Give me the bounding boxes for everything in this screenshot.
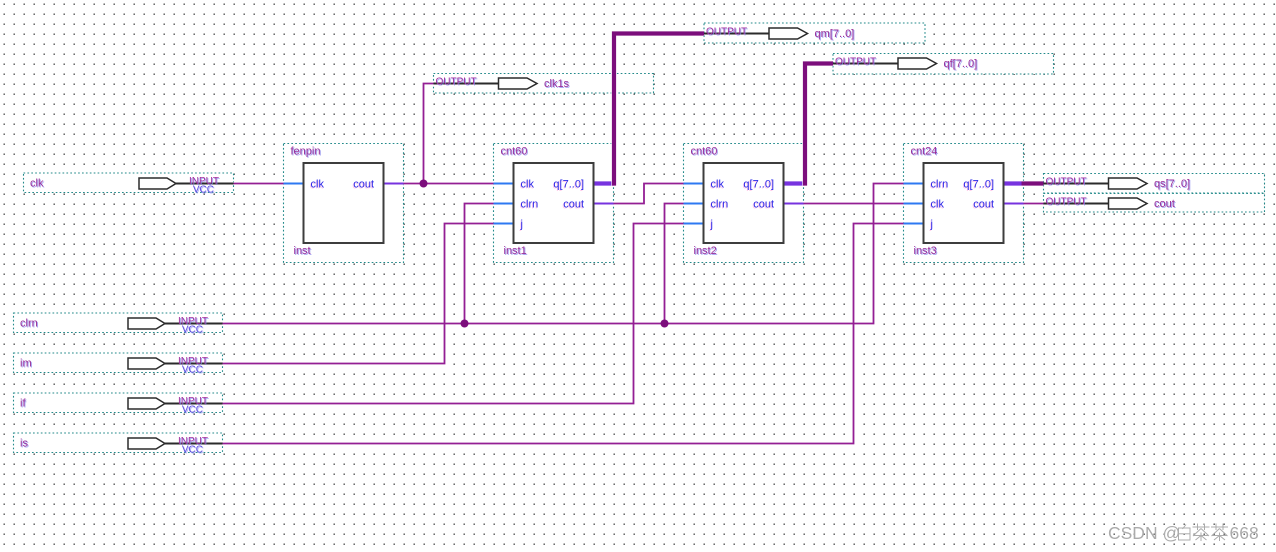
svg-text:VCC: VCC	[182, 404, 203, 415]
svg-text:j: j	[710, 219, 713, 231]
cnt60 inst2 input port clk label	[710, 179, 725, 192]
input pin name label im	[20, 358, 33, 371]
junction node at fenpin.cout branch	[420, 180, 428, 188]
input pin name label is	[20, 438, 29, 451]
cnt24 inst3 input port clrn label	[930, 179, 949, 192]
svg-text:q[7..0]: q[7..0]	[743, 179, 774, 191]
cnt60 inst2 output port q[7..0] label	[743, 179, 774, 192]
svg-text:clk1s: clk1s	[544, 78, 570, 90]
wire inst3.cout to cout output pin	[1024, 203, 1044, 205]
input pin is selection box	[14, 433, 223, 453]
block fenpin selection box	[284, 144, 404, 263]
output pin clk1s OUTPUT label	[436, 77, 478, 89]
wire branch up to clk1s output pin	[424, 84, 434, 184]
output pin name label qm[7..0]	[815, 28, 856, 41]
input pin name label clrn	[20, 318, 39, 331]
bus white halos	[614, 34, 1044, 186]
output pin qf[7..0] selection box	[833, 54, 1054, 75]
svg-text:im: im	[20, 358, 32, 370]
instance name label inst1	[504, 245, 528, 258]
svg-text:OUTPUT: OUTPUT	[1046, 197, 1087, 208]
input pin clk VCC label	[193, 184, 215, 196]
svg-text:j: j	[520, 219, 523, 231]
wire im pin to inst1.j	[223, 224, 494, 364]
svg-text:OUTPUT: OUTPUT	[1046, 177, 1087, 188]
svg-text:fenpin: fenpin	[291, 146, 321, 158]
cnt60 inst2 output port cout label	[752, 199, 774, 212]
svg-text:clk: clk	[30, 178, 44, 190]
bus qm[7..0] from inst1.q to output pin	[614, 34, 704, 186]
fenpin inst input port clk label	[310, 179, 325, 192]
cnt24 inst3 input port j label	[929, 219, 933, 232]
output pin clk1s symbol	[434, 78, 538, 89]
input pin im INPUT label	[178, 356, 209, 368]
block type label cnt60	[501, 146, 529, 159]
watermark CSDN @baichacha668	[1108, 523, 1259, 543]
input pin name label clk	[30, 178, 45, 191]
input pin im selection box	[14, 353, 223, 373]
output pin name label cout	[1154, 198, 1176, 211]
svg-text:cout: cout	[563, 199, 584, 211]
wire clrn branch to inst2.clrn	[665, 204, 684, 324]
output pin qf[7..0] symbol	[833, 58, 937, 69]
svg-text:CSDN @: CSDN @	[1108, 523, 1180, 543]
block cnt60 inst1 body	[514, 163, 594, 243]
wire inst2.cout to inst3.clk	[804, 203, 904, 205]
svg-text:clk: clk	[521, 179, 535, 191]
svg-text:qs[7..0]: qs[7..0]	[1154, 178, 1190, 190]
svg-text:VCC: VCC	[193, 184, 214, 195]
svg-text:clk: clk	[931, 199, 945, 211]
input pin clrn selection box	[14, 313, 223, 333]
input pin is INPUT label	[178, 436, 209, 448]
svg-text:VCC: VCC	[182, 364, 203, 375]
bus qf[7..0] from inst2.q to output pin	[805, 64, 833, 186]
input pin clrn VCC label	[182, 324, 204, 336]
input pin if INPUT label	[178, 396, 209, 408]
input pin if VCC label	[182, 404, 204, 416]
svg-text:clrn: clrn	[20, 318, 38, 330]
svg-text:VCC: VCC	[182, 444, 203, 455]
cnt24 inst3 input port clk label	[930, 199, 945, 212]
svg-text:is: is	[20, 438, 28, 450]
input pin if symbol	[128, 398, 223, 409]
svg-text:OUTPUT: OUTPUT	[436, 77, 477, 88]
svg-text:VCC: VCC	[182, 324, 203, 335]
output pin qm[7..0] symbol	[704, 28, 808, 39]
input pin is symbol	[128, 438, 223, 449]
bus qs[7..0] from inst3.q to output pin	[1022, 181, 1044, 185]
output pin name label qs[7..0]	[1154, 178, 1191, 191]
block cnt60 inst2 body	[704, 163, 784, 243]
input pin clrn INPUT label	[178, 316, 209, 328]
input pin name label if	[20, 398, 27, 411]
output pin clk1s selection box	[434, 74, 654, 94]
input pin is VCC label	[182, 444, 204, 456]
cnt24 inst3 output port q[7..0] label	[963, 179, 994, 192]
cnt60 inst1 input port j label	[519, 219, 523, 232]
block fenpin inst body	[304, 163, 384, 243]
svg-text:clk: clk	[711, 179, 725, 191]
svg-text:inst1: inst1	[504, 245, 527, 257]
svg-text:cnt60: cnt60	[691, 146, 718, 158]
block fenpin inst port stubs	[284, 183, 404, 185]
block cnt24 inst3 port stubs	[904, 184, 1024, 224]
svg-text:cnt60: cnt60	[501, 146, 528, 158]
svg-text:cout: cout	[753, 199, 774, 211]
block cnt60 inst1 port stubs	[494, 184, 614, 224]
block type label cnt24	[911, 146, 939, 159]
cnt60 inst1 input port clk label	[520, 179, 535, 192]
svg-text:qm[7..0]: qm[7..0]	[815, 28, 855, 40]
wire white halos	[223, 84, 1044, 444]
wire clk pin to fenpin.clk	[234, 183, 284, 185]
cnt60 inst2 input port j label	[709, 219, 713, 232]
svg-text:q[7..0]: q[7..0]	[963, 179, 994, 191]
wire clrn branch to inst1.clrn	[465, 204, 494, 324]
output pin qs[7..0] selection box	[1044, 174, 1265, 194]
instance name label inst3	[914, 245, 938, 258]
input pin clk symbol	[139, 178, 234, 189]
svg-text:clk: clk	[311, 179, 325, 191]
output pin qm[7..0] OUTPUT label	[706, 27, 748, 39]
junction node clrn/inst1	[461, 320, 469, 328]
svg-text:cnt24: cnt24	[911, 146, 938, 158]
output pin qs[7..0] symbol	[1044, 178, 1148, 189]
svg-text:cout: cout	[1154, 198, 1175, 210]
cnt60 inst1 output port cout label	[562, 199, 584, 212]
output pin name label clk1s	[544, 78, 571, 91]
wire inst1.cout to inst2.clk	[614, 184, 684, 204]
svg-text:668: 668	[1230, 523, 1259, 543]
block type label fenpin	[291, 146, 322, 159]
input pin if selection box	[14, 393, 223, 413]
block cnt24 inst3 body	[924, 163, 1004, 243]
svg-text:cout: cout	[973, 199, 994, 211]
block cnt24 inst3 selection box	[904, 144, 1024, 263]
svg-text:clrn: clrn	[711, 199, 729, 211]
fenpin inst output port cout label	[352, 179, 374, 192]
wire is pin to inst3.j	[223, 224, 904, 444]
output pin qf[7..0] OUTPUT label	[835, 57, 877, 69]
input pin clrn symbol	[128, 318, 223, 329]
wire if pin to inst2.j	[223, 224, 684, 404]
svg-text:clrn: clrn	[931, 179, 949, 191]
svg-text:inst3: inst3	[914, 245, 937, 257]
input pin clk selection box	[24, 173, 234, 193]
cnt60 inst2 input port clrn label	[710, 199, 729, 212]
block cnt60 inst2 selection box	[684, 144, 804, 263]
output pin cout OUTPUT label	[1046, 197, 1088, 209]
svg-text:inst2: inst2	[694, 245, 717, 257]
svg-text:inst: inst	[294, 245, 311, 257]
wire clrn net horizontal run	[223, 184, 904, 324]
instance name label inst2	[694, 245, 718, 258]
svg-text:OUTPUT: OUTPUT	[835, 57, 876, 68]
output pin qs[7..0] OUTPUT label	[1046, 177, 1088, 189]
svg-text:q[7..0]: q[7..0]	[553, 179, 584, 191]
svg-text:j: j	[930, 219, 933, 231]
block cnt60 inst2 port stubs	[684, 184, 804, 224]
instance name label inst	[294, 245, 312, 258]
wire fenpin.cout to cnt60 inst1 clk	[404, 183, 494, 185]
output pin qm[7..0] selection box	[704, 23, 925, 43]
svg-text:OUTPUT: OUTPUT	[706, 27, 747, 38]
cnt60 inst1 input port clrn label	[520, 199, 539, 212]
cnt60 inst1 output port q[7..0] label	[553, 179, 584, 192]
svg-text:if: if	[20, 398, 26, 410]
svg-text:clrn: clrn	[521, 199, 539, 211]
input pin clk INPUT label	[189, 176, 220, 188]
junction node clrn/inst2	[661, 320, 669, 328]
output pin name label qf[7..0]	[944, 58, 979, 71]
svg-text:qf[7..0]: qf[7..0]	[944, 58, 978, 70]
svg-text:cout: cout	[353, 179, 374, 191]
output pin cout selection box	[1044, 193, 1265, 212]
output pin cout symbol	[1044, 198, 1148, 209]
cnt24 inst3 output port cout label	[972, 199, 994, 212]
block cnt60 inst1 selection box	[494, 144, 614, 263]
block type label cnt60	[691, 146, 719, 159]
input pin im VCC label	[182, 364, 204, 376]
input pin im symbol	[128, 358, 223, 369]
